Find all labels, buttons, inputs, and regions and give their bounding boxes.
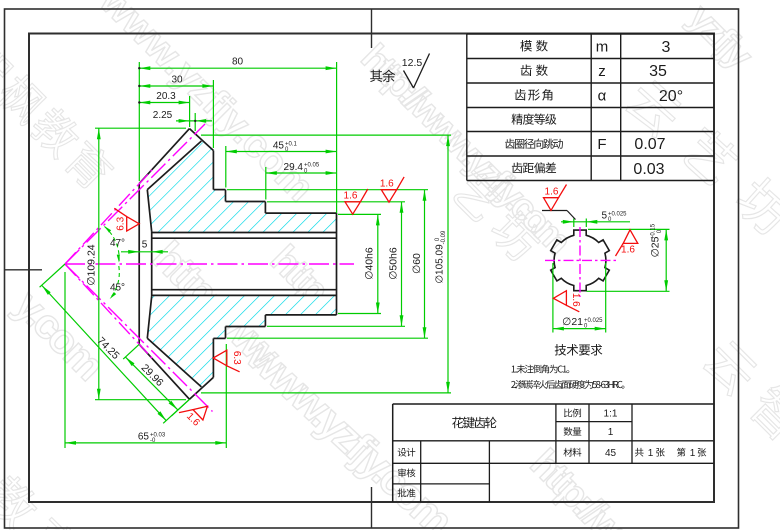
svg-text:1: 1	[648, 448, 654, 459]
svg-text:30: 30	[171, 75, 183, 86]
title block	[393, 404, 714, 502]
svg-text:∅21: ∅21	[562, 316, 583, 328]
spline bore lines	[152, 233, 337, 296]
gear left face	[138, 184, 140, 345]
technical requirements text	[511, 344, 624, 389]
svg-text:F: F	[597, 136, 606, 153]
svg-text:0.07: 0.07	[634, 136, 665, 153]
svg-text:1.6: 1.6	[344, 191, 358, 202]
svg-text:∅50h6: ∅50h6	[388, 247, 400, 280]
svg-text:20.3: 20.3	[156, 91, 176, 102]
dimension diameter 105.09 0/-0.09	[201, 135, 451, 393]
svg-text:∅105.09: ∅105.09	[435, 244, 446, 284]
roughness 1.6 gear tooth face	[179, 406, 207, 429]
gear right face	[336, 213, 338, 315]
dimension 80 top	[139, 57, 336, 214]
svg-text:1.6: 1.6	[380, 179, 394, 190]
svg-text:∅40h6: ∅40h6	[364, 247, 376, 280]
spline view horizontal centerline	[545, 259, 616, 261]
svg-text:0.03: 0.03	[633, 161, 664, 178]
pitch cone centerline lower	[65, 264, 213, 412]
svg-text:6.3: 6.3	[116, 216, 127, 230]
dimension diameter 40h6	[338, 214, 381, 313]
pitch cone centerline upper	[65, 124, 205, 264]
roughness 6.3 lower back face	[213, 350, 242, 372]
svg-text:3: 3	[662, 39, 671, 56]
dimension 2.25	[153, 110, 212, 131]
svg-text:5: 5	[142, 240, 148, 251]
svg-text:α: α	[598, 88, 607, 105]
svg-text:1.6: 1.6	[621, 245, 635, 256]
svg-text:45: 45	[605, 448, 617, 459]
svg-text:20°: 20°	[659, 88, 683, 105]
roughness 1.6 diameter 25 surface	[616, 230, 638, 256]
gear front hub face	[147, 190, 151, 339]
svg-text:47°: 47°	[110, 238, 125, 249]
svg-text:1: 1	[608, 427, 614, 438]
svg-text:2.25: 2.25	[153, 110, 173, 121]
face cone centerline upper	[65, 170, 152, 264]
angle dimension 47 degrees	[104, 226, 125, 263]
title block texts	[398, 409, 707, 498]
spline view vertical centerline	[579, 227, 581, 297]
face cone centerline lower	[65, 264, 152, 358]
dimension 30	[139, 75, 213, 149]
svg-text:1.6: 1.6	[545, 187, 559, 198]
general roughness note 12.5	[370, 54, 429, 89]
svg-text:80: 80	[232, 57, 244, 68]
svg-text:1:1: 1:1	[604, 409, 618, 420]
roughness 1.6 spline slot	[544, 185, 567, 211]
dimension 45 +0.1/0	[226, 141, 337, 188]
svg-text:65: 65	[138, 432, 150, 443]
angle dimension 45 degrees	[110, 266, 125, 299]
dimension diameter 25 +0.15/0	[587, 223, 670, 291]
svg-text:1.6: 1.6	[570, 293, 581, 307]
dimension 20.3	[139, 91, 189, 127]
svg-text:1: 1	[690, 448, 696, 459]
dimension 74.25 cone distance	[40, 264, 190, 423]
svg-text:35: 35	[649, 63, 667, 80]
svg-text:29.4: 29.4	[284, 162, 304, 173]
horizontal centerline	[65, 263, 354, 265]
roughness 1.6 diameter 21 surface	[553, 291, 581, 312]
roughness 1.6 diameter 40 surface	[345, 202, 360, 214]
svg-text:6.3: 6.3	[231, 351, 242, 365]
dimension node dots	[138, 67, 140, 104]
roughness 1.6 diameter 50 surface	[381, 190, 396, 202]
gear outline upper	[139, 129, 336, 214]
dimension 5 hub width	[121, 240, 168, 254]
svg-text:5: 5	[601, 211, 607, 222]
svg-text:z: z	[598, 63, 606, 80]
section hatch lower gear body	[147, 295, 336, 386]
dimension 5 +0.025/0 spline slot width	[561, 211, 630, 228]
gear parameter table	[467, 34, 714, 181]
svg-text:12.5: 12.5	[402, 57, 423, 69]
dimension diameter 109.24	[86, 128, 187, 400]
svg-text:-0: -0	[150, 438, 156, 444]
svg-text:m: m	[596, 39, 609, 56]
leader line slot surface	[542, 211, 576, 220]
svg-text:∅60: ∅60	[411, 253, 423, 274]
gear outline lower	[139, 315, 336, 399]
roughness 6.3 left face	[114, 208, 139, 231]
svg-text:-0.09: -0.09	[441, 230, 447, 244]
dimension 29.96 face width	[123, 344, 189, 416]
svg-text:45°: 45°	[110, 283, 125, 294]
dimension 29.4 +0.05/0	[266, 162, 337, 200]
dimension diameter 60	[227, 190, 428, 339]
dimension diameter 50h6	[267, 202, 405, 326]
svg-text:45: 45	[273, 141, 285, 152]
dimension 65 +0.03/-0	[65, 272, 226, 448]
svg-text:∅109.24: ∅109.24	[86, 244, 98, 285]
spline profile section	[551, 230, 610, 291]
dimension diameter 21 +0.025/0	[553, 263, 606, 333]
svg-text:+0.15: +0.15	[651, 223, 657, 239]
section hatch upper gear body	[147, 141, 336, 232]
